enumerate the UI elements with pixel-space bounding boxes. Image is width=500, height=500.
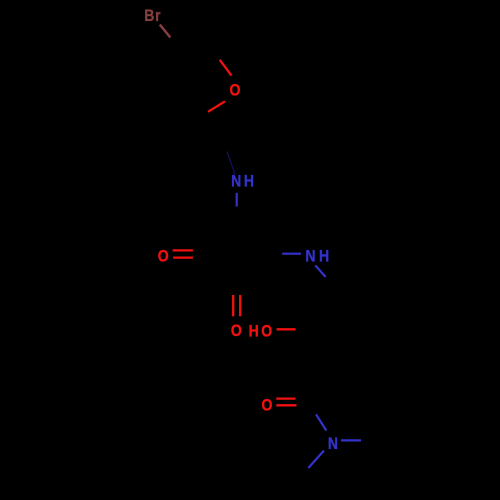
svg-text:N: N bbox=[231, 172, 241, 190]
svg-text:O: O bbox=[230, 82, 241, 100]
svg-text:H: H bbox=[319, 247, 329, 265]
svg-text:B: B bbox=[144, 7, 154, 25]
svg-text:H: H bbox=[249, 323, 259, 341]
svg-text:r: r bbox=[155, 7, 160, 25]
svg-text:N: N bbox=[328, 435, 338, 453]
svg-text:N: N bbox=[305, 247, 315, 265]
svg-text:O: O bbox=[262, 397, 273, 415]
svg-text:H: H bbox=[244, 172, 254, 190]
svg-text:O: O bbox=[158, 247, 169, 265]
svg-text:O: O bbox=[231, 322, 242, 340]
svg-text:O: O bbox=[261, 322, 272, 340]
